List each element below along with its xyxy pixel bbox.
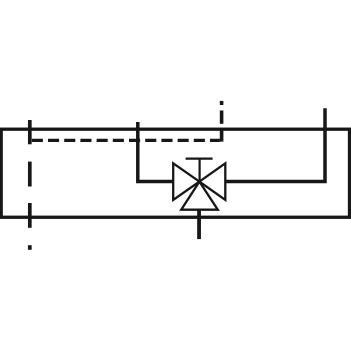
valve V1: right triangle xyxy=(199,163,225,200)
pilot dashed line horizontal (inside box) xyxy=(32,139,220,142)
valve V1: bottom triangle xyxy=(181,182,218,210)
wire: right port line down to valve right connection xyxy=(225,108,325,181)
enclosure boundary (subsystem box) xyxy=(1,129,349,217)
wire: bottom port line from valve bottom through border xyxy=(197,210,201,239)
wire: left port line down to valve left connection xyxy=(138,122,174,182)
valve V1: stem xyxy=(199,159,201,182)
valve V1: T handle bar xyxy=(186,158,213,160)
pilot dash-dot line left (vertical, crosses top and bottom border) xyxy=(28,120,32,250)
valve V1: 3-way valve, left triangle xyxy=(173,163,199,200)
pilot dash-dot line top right (vertical at x=221.6) xyxy=(220,101,224,142)
